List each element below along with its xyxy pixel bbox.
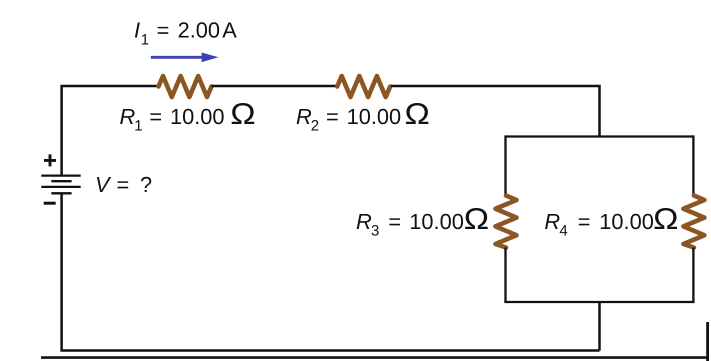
battery V: short plate xyxy=(51,180,71,182)
battery V: long plate (top, positive) xyxy=(41,174,80,176)
svg-text:Ω: Ω xyxy=(230,98,255,131)
resistor R1 xyxy=(159,76,212,97)
resistor R3 xyxy=(496,196,517,248)
wire: box bottom down to bottom rail xyxy=(598,302,601,351)
resistor R2 xyxy=(337,76,390,97)
svg-text:Ω: Ω xyxy=(405,98,430,131)
wire: between R1 and R2 xyxy=(212,85,339,88)
wire: bottom rail and battery negative lead xyxy=(62,193,600,350)
resistor R4 xyxy=(683,196,704,248)
wire: box right edge below R4 xyxy=(692,248,694,304)
svg-text:R 1 = 10.00: R 1 = 10.00 xyxy=(120,104,225,136)
wire: R2 to top-right corner and down to parallel box xyxy=(391,86,600,137)
battery minus terminal mark xyxy=(44,202,56,205)
svg-text:Ω: Ω xyxy=(464,203,489,236)
svg-text:V = ?: V = ? xyxy=(95,172,152,197)
svg-text:R 3 = 10.00: R 3 = 10.00 xyxy=(356,209,464,241)
wire: parallel box bottom edge xyxy=(504,301,694,303)
battery plus terminal mark xyxy=(44,154,56,166)
svg-text:Ω: Ω xyxy=(653,203,678,236)
svg-text:I 1 = 2.00 A: I 1 = 2.00 A xyxy=(134,18,237,50)
battery V: long plate xyxy=(41,186,80,188)
figure right border tick xyxy=(706,322,709,361)
svg-text:R 2 = 10.00: R 2 = 10.00 xyxy=(296,104,401,136)
wire: parallel box top edge xyxy=(506,135,694,137)
wire: battery positive lead up and top wire to R1 xyxy=(62,86,159,176)
wire: box left edge below R3 xyxy=(504,248,506,304)
current arrow I1 (blue) xyxy=(151,53,219,63)
wire: box right edge above R4 xyxy=(692,135,694,195)
wire: box left edge above R3 xyxy=(504,135,506,195)
figure bottom border line xyxy=(41,356,708,359)
battery V: short plate (bottom, negative) xyxy=(51,192,71,194)
svg-text:R 4 = 10.00: R 4 = 10.00 xyxy=(544,209,653,241)
